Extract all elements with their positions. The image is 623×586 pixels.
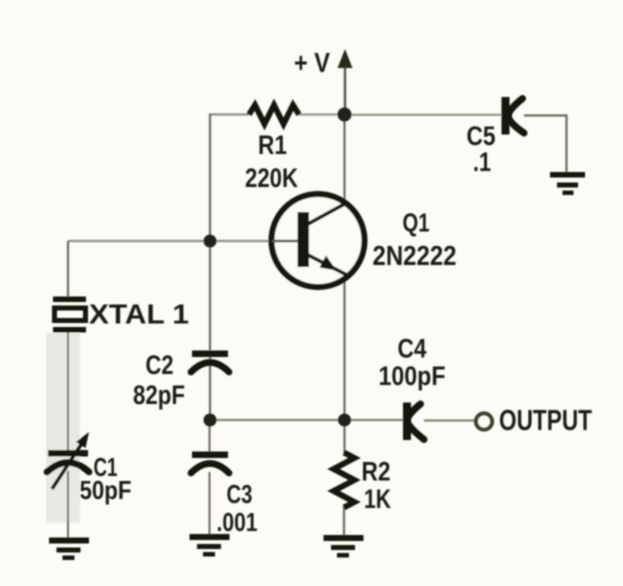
variable capacitor C1 arrowhead <box>76 432 89 448</box>
transistor Q1 emitter arrowhead <box>320 256 337 271</box>
wire C3 top lead from node <box>209 420 211 452</box>
transistor Q1 base lead inside circle <box>272 240 298 242</box>
wire base node down to crystal <box>67 241 69 298</box>
ground (C1 branch) <box>49 538 89 561</box>
svg-text:R1: R1 <box>258 130 287 160</box>
svg-text:C3: C3 <box>227 479 253 509</box>
node junction base / XTAL / C2 <box>204 235 217 248</box>
svg-text:OUTPUT: OUTPUT <box>499 405 592 437</box>
capacitor C3 curved plate <box>191 464 229 474</box>
variable capacitor C1 curved plate <box>47 463 89 473</box>
wire collector rail (junction down to transistor) <box>343 114 345 203</box>
capacitor C2 curved plate <box>191 363 229 373</box>
wire top rail middle (R1 right lead to +V junction) <box>296 113 345 115</box>
wire left vertical (R1 left corner down through C2 to bottom node) <box>209 114 211 421</box>
svg-text:XTAL 1: XTAL 1 <box>89 299 189 330</box>
svg-text:1K: 1K <box>364 484 391 514</box>
wire top rail right (junction to C5 left plate) <box>345 114 502 116</box>
svg-text:2N2222: 2N2222 <box>373 240 457 271</box>
svg-text:Q1: Q1 <box>403 208 430 238</box>
transistor Q1 emitter lead <box>308 255 346 275</box>
wire bottom rail (node to C4) <box>210 419 403 421</box>
crystal XTAL1 bottom plate <box>53 327 86 333</box>
wire emitter rail (transistor down to bottom junction) <box>343 277 345 453</box>
capacitor C3 flat plate <box>192 452 228 459</box>
transistor Q1 circle <box>272 194 365 287</box>
wire C3 lead down to ground <box>209 472 211 535</box>
node junction +V / R1 / C5 <box>338 108 352 122</box>
variable capacitor C1 flat plate <box>48 450 88 457</box>
node junction C2 / C3 / bottom rail <box>204 414 217 427</box>
wire base node to transistor base <box>68 240 298 242</box>
shaded band behind crystal branch <box>46 333 80 523</box>
+V arrowhead <box>338 49 353 68</box>
crystal XTAL1 body <box>55 308 86 321</box>
crystal XTAL1 top plate <box>53 297 86 303</box>
capacitor C4 plate <box>403 403 411 441</box>
transistor Q1 base bar <box>298 212 310 267</box>
ground (R2 branch) <box>324 535 364 558</box>
ground (C5 branch) <box>550 172 585 195</box>
wire +V supply stub <box>344 60 346 114</box>
svg-text:.1: .1 <box>473 147 491 177</box>
wire R2 to ground <box>343 506 345 536</box>
svg-text:220K: 220K <box>245 163 298 193</box>
capacitor C5 plate <box>502 97 510 135</box>
capacitor C5 curved plate <box>508 99 524 134</box>
transistor Q1 collector lead <box>308 204 345 224</box>
ground (C3 branch) <box>190 534 230 557</box>
resistor R2 <box>334 453 355 508</box>
wire crystal to C1 <box>67 332 69 451</box>
svg-text:R2: R2 <box>362 457 391 487</box>
wire C5 right lead and drop to ground <box>524 116 567 173</box>
wire C1 to ground <box>67 471 69 538</box>
output terminal circle <box>476 413 492 429</box>
svg-text:82pF: 82pF <box>133 380 185 410</box>
svg-text:50pF: 50pF <box>80 475 132 505</box>
svg-text:C4: C4 <box>398 334 427 364</box>
variable capacitor C1 arrow shaft <box>52 440 84 489</box>
svg-text:+ V: + V <box>294 47 330 78</box>
wire top rail left segment (R1 left lead to left corner) <box>210 113 249 115</box>
resistor R1 <box>249 105 299 124</box>
capacitor C4 curved plate <box>407 404 424 440</box>
svg-text:100pF: 100pF <box>379 361 446 391</box>
svg-text:C2: C2 <box>146 350 174 380</box>
node junction emitter / R2 / C4 <box>338 414 351 427</box>
wire C4 to output terminal <box>424 419 475 421</box>
svg-text:.001: .001 <box>217 507 258 537</box>
capacitor C2 flat plate <box>192 351 228 358</box>
